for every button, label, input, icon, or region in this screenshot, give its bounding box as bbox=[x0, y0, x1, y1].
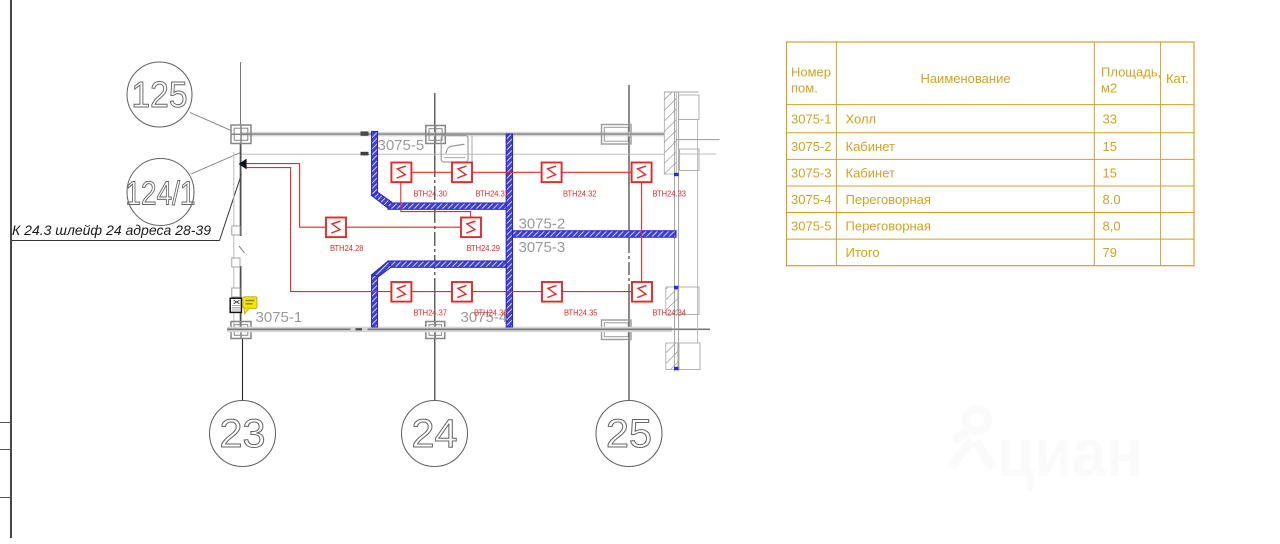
watermark cian logo figure bbox=[951, 409, 993, 468]
facade rect 1 bbox=[679, 95, 699, 120]
detector BTH24.37 bbox=[391, 282, 411, 302]
detector BTH24.28 bbox=[326, 218, 346, 238]
svg-text:ВТН24.35: ВТН24.35 bbox=[564, 308, 598, 318]
door symbol bbox=[441, 136, 472, 164]
svg-text:8.0: 8.0 bbox=[1103, 192, 1121, 207]
window tick 1 bbox=[674, 173, 679, 176]
partition C vertical bbox=[506, 134, 512, 327]
note icon yellow bbox=[243, 297, 257, 314]
svg-text:ВТН24.28: ВТН24.28 bbox=[330, 243, 364, 253]
grid line 25 bbox=[628, 85, 630, 401]
svg-text:Кабинет: Кабинет bbox=[846, 165, 895, 180]
grid circle 23 bbox=[210, 401, 276, 467]
wire BTH24.35 to BTH24.34 bbox=[562, 291, 632, 293]
left wall light face bbox=[233, 152, 235, 327]
right wall faces bbox=[675, 92, 679, 371]
bottom wall bbox=[227, 327, 710, 333]
detector BTH24.35 bbox=[542, 282, 562, 302]
partition E vertical bbox=[372, 276, 378, 328]
sheet border tick 3 bbox=[0, 497, 11, 499]
grid line 24 bbox=[434, 93, 436, 401]
svg-text:Итого: Итого bbox=[846, 245, 880, 260]
partition B horizontal bbox=[388, 203, 508, 209]
svg-text:ВТН24.32: ВТН24.32 bbox=[563, 189, 597, 199]
column box grid24 top bbox=[426, 126, 446, 144]
svg-text:Площадь,: Площадь, bbox=[1101, 65, 1161, 80]
facade rect 4 bbox=[679, 343, 700, 370]
right side line a bbox=[676, 139, 720, 141]
wire BTH24.30 to BTH24.31 bbox=[412, 171, 452, 173]
facade outer line bbox=[697, 120, 699, 344]
svg-text:ВТН24.36: ВТН24.36 bbox=[474, 308, 508, 318]
svg-text:8,0: 8,0 bbox=[1103, 219, 1121, 234]
left wall dark face lower bbox=[240, 266, 242, 327]
right wall top line bbox=[664, 91, 699, 93]
window tick 2 bbox=[674, 286, 679, 289]
svg-text:Переговорная: Переговорная bbox=[846, 219, 931, 234]
svg-text:ВТН24.29: ВТН24.29 bbox=[467, 243, 501, 253]
svg-text:м2: м2 bbox=[1101, 81, 1117, 96]
right side line b bbox=[680, 153, 716, 155]
grid circle 24 bbox=[402, 401, 468, 467]
note leader diagonal bbox=[220, 174, 242, 241]
grid circle 125 bbox=[127, 62, 192, 127]
svg-text:15: 15 bbox=[1103, 165, 1117, 180]
partition A vertical bbox=[372, 132, 378, 196]
leader from circle 124/1 bbox=[191, 153, 241, 175]
wire BTH24.28 to BTH24.29 bbox=[346, 226, 461, 228]
detector BTH24.33 bbox=[632, 163, 652, 183]
door jamb 3 bbox=[232, 288, 240, 297]
left wall dark face upper bbox=[240, 144, 242, 236]
detector BTH24.30 bbox=[391, 163, 411, 183]
column box grid24 bottom bbox=[426, 322, 445, 339]
wire BTH24.37 to BTH24.36 bbox=[412, 291, 452, 293]
grid line 23 lower bbox=[242, 338, 244, 401]
partition D diagonal bbox=[372, 261, 392, 277]
note underline bbox=[12, 240, 220, 242]
svg-text:ВТН24.34: ВТН24.34 bbox=[653, 308, 687, 318]
svg-text:Кат.: Кат. bbox=[1166, 71, 1189, 86]
top wall bbox=[240, 132, 664, 137]
wire BTH24.32 to BTH24.33 bbox=[561, 171, 631, 173]
partition A diagonal bbox=[372, 192, 392, 208]
svg-text:К 24.3 шлейф 24 адреса 28-39: К 24.3 шлейф 24 адреса 28-39 bbox=[12, 222, 211, 238]
detector BTH24.36 bbox=[452, 282, 472, 302]
svg-text:Кабинет: Кабинет bbox=[846, 139, 895, 154]
window tick 3 bbox=[674, 367, 679, 370]
facade rect 2 bbox=[680, 149, 699, 171]
wire BTH24.29 to BTH24.30 bbox=[401, 182, 471, 217]
svg-text:3075-5: 3075-5 bbox=[378, 137, 425, 154]
wire BTH24.36 to BTH24.35 bbox=[472, 291, 542, 293]
svg-text:ВТН24.33: ВТН24.33 bbox=[653, 189, 687, 199]
sheet border line left bbox=[10, 0, 12, 538]
detector BTH24.34 bbox=[632, 282, 652, 302]
right wall hatch pier bottom bbox=[666, 343, 678, 370]
svg-text:33: 33 bbox=[1103, 112, 1117, 127]
grid circle 25 bbox=[596, 401, 662, 467]
door jamb 1 bbox=[232, 226, 240, 235]
svg-text:пом.: пом. bbox=[791, 81, 818, 96]
svg-text:24: 24 bbox=[412, 412, 458, 456]
column rect grid25 bottom bbox=[602, 320, 632, 340]
svg-text:Переговорная: Переговорная bbox=[846, 192, 931, 207]
door jamb 2 bbox=[232, 258, 240, 267]
svg-text:79: 79 bbox=[1103, 245, 1117, 260]
svg-text:циан: циан bbox=[997, 415, 1143, 491]
leader from circle 125 bbox=[190, 113, 231, 131]
door leaf tick bbox=[239, 246, 245, 253]
right wall hatch pier mid bbox=[666, 287, 678, 315]
svg-text:ВТН24.31: ВТН24.31 bbox=[476, 189, 510, 199]
svg-text:15: 15 bbox=[1103, 139, 1117, 154]
svg-text:Наименование: Наименование bbox=[920, 71, 1010, 86]
svg-text:25: 25 bbox=[606, 412, 652, 456]
svg-text:3075-1: 3075-1 bbox=[791, 112, 831, 127]
svg-text:3075-2: 3075-2 bbox=[519, 216, 566, 233]
wire entry to BTH24.28 bbox=[247, 164, 326, 228]
svg-text:ВТН24.37: ВТН24.37 bbox=[414, 308, 448, 318]
svg-text:Номер: Номер bbox=[791, 65, 831, 80]
wire entry to BTH24.37 bbox=[247, 168, 392, 292]
column box grid23 bottom bbox=[231, 322, 251, 339]
svg-text:3075-2: 3075-2 bbox=[791, 139, 831, 154]
manual call point bbox=[230, 298, 241, 312]
hall upper dark stub bbox=[361, 152, 369, 156]
right wall hatch pier top bbox=[664, 92, 676, 174]
grid line 23 upper stub bbox=[240, 62, 242, 125]
svg-text:23: 23 bbox=[220, 412, 266, 456]
column rect grid25 top bbox=[602, 125, 632, 145]
detector BTH24.31 bbox=[452, 163, 472, 183]
svg-text:3075-3: 3075-3 bbox=[791, 165, 831, 180]
grid circle 124/1 bbox=[126, 159, 196, 226]
sheet border tick 1 bbox=[0, 422, 11, 424]
svg-text:3075-5: 3075-5 bbox=[791, 219, 831, 234]
partition F horizontal bbox=[513, 231, 677, 237]
svg-text:Холл: Холл bbox=[846, 112, 877, 127]
detector BTH24.29 bbox=[461, 218, 481, 238]
hall upper thin line bbox=[240, 153, 664, 155]
partition D horizontal bbox=[388, 261, 506, 267]
facade rect 3 bbox=[679, 287, 699, 315]
column box grid23 top bbox=[231, 125, 251, 144]
sheet border tick 2 bbox=[0, 449, 11, 451]
top wall dark stub bbox=[361, 131, 369, 135]
svg-text:3075-4: 3075-4 bbox=[791, 192, 831, 207]
svg-text:124/1: 124/1 bbox=[126, 175, 196, 212]
svg-text:ВТН24.30: ВТН24.30 bbox=[414, 189, 448, 199]
svg-text:125: 125 bbox=[132, 74, 188, 115]
wire BTH24.31 to BTH24.32 bbox=[472, 171, 542, 173]
table room schedule bbox=[787, 42, 1195, 266]
wire BTH24.33 to BTH24.34 bbox=[641, 182, 643, 282]
svg-text:3075-3: 3075-3 bbox=[519, 239, 566, 256]
svg-text:3075-1: 3075-1 bbox=[256, 309, 303, 326]
loop entry marker triangle bbox=[239, 159, 247, 170]
detector BTH24.32 bbox=[542, 163, 562, 183]
